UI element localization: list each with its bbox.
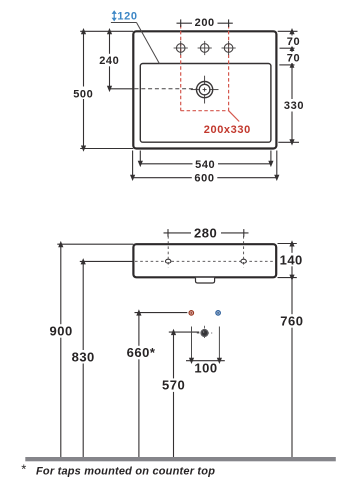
- svg-text:200: 200: [195, 17, 215, 29]
- leader for 120 depth: [111, 22, 137, 24]
- dim 660*: [135, 313, 188, 457]
- svg-text:200x330: 200x330: [204, 124, 251, 136]
- svg-text:570: 570: [162, 378, 185, 393]
- dim 760: [291, 278, 293, 457]
- svg-text:280: 280: [194, 225, 217, 240]
- svg-text:660*: 660*: [127, 345, 156, 360]
- floor line: [25, 457, 336, 461]
- svg-text:330: 330: [284, 100, 304, 112]
- dim 200 line: [177, 22, 233, 24]
- faucet hole right: [222, 41, 236, 55]
- mounting hole right: [241, 259, 246, 263]
- dashed extension through left hole: [167, 236, 169, 268]
- svg-text:540: 540: [195, 159, 215, 171]
- svg-text:500: 500: [73, 88, 93, 100]
- svg-text:900: 900: [49, 324, 72, 339]
- dim 280: [164, 232, 249, 234]
- dim 900: [57, 244, 133, 457]
- svg-text:120: 120: [117, 11, 137, 23]
- dim 500 left: [80, 31, 133, 148]
- dim 540: [140, 151, 271, 164]
- red dashed cutout bottom: [181, 110, 229, 112]
- drain notch under sink: [196, 278, 215, 283]
- basin inner rect: [140, 64, 271, 143]
- red dashed cutout right side: [228, 25, 230, 111]
- right side dim line (70/70/330): [278, 31, 299, 142]
- svg-text:830: 830: [72, 349, 95, 364]
- faucet hole left: [174, 41, 188, 55]
- red dashed cutout 200x330 left side: [180, 25, 182, 111]
- cold water supply (blue): [216, 311, 221, 316]
- faucet hole middle: [198, 41, 212, 55]
- svg-text:70: 70: [287, 36, 300, 48]
- svg-text:140: 140: [280, 252, 303, 267]
- dashed extension through right hole: [243, 236, 245, 268]
- dashed centerline in sink: [135, 260, 275, 262]
- dim 240: [110, 31, 135, 89]
- label 120 blue with updown arrow: [112, 10, 117, 21]
- drain top view: [191, 76, 219, 104]
- svg-text:100: 100: [194, 361, 217, 376]
- svg-text:70: 70: [287, 52, 300, 64]
- dim 570: [169, 332, 199, 457]
- svg-text:*: *: [21, 462, 26, 477]
- waste drain outlet: [197, 326, 212, 340]
- dim 100: [192, 327, 220, 361]
- dim 600: [133, 151, 277, 178]
- svg-text:240: 240: [99, 55, 119, 67]
- hot water supply (red): [189, 311, 194, 316]
- sink front rect: [133, 244, 276, 277]
- svg-text:For taps mounted on counter to: For taps mounted on counter top: [36, 466, 215, 478]
- dim 830: [80, 261, 134, 457]
- mounting hole left: [166, 259, 171, 263]
- svg-text:760: 760: [280, 313, 303, 328]
- red leader to 200x330 label: [229, 111, 240, 122]
- basin outer rect 600x500: [133, 31, 276, 148]
- dashed centerline to drain: [135, 88, 198, 90]
- svg-text:600: 600: [194, 173, 214, 185]
- dim 140: [278, 244, 297, 278]
